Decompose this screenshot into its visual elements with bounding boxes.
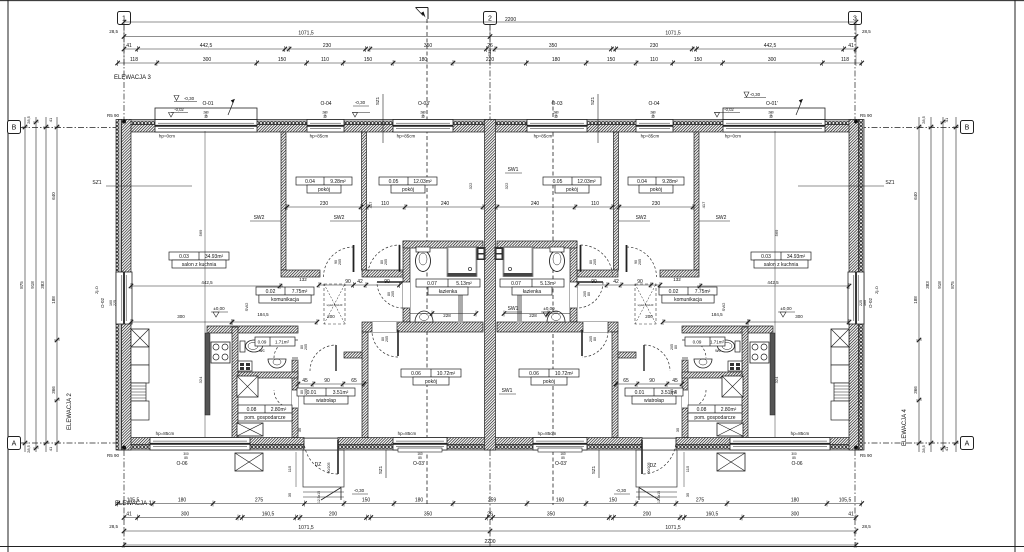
svg-text:0.09: 0.09 bbox=[258, 340, 267, 345]
svg-text:R5 90: R5 90 bbox=[860, 113, 873, 118]
svg-text:150: 150 bbox=[609, 497, 618, 503]
entry door DZ left leaf+arc bbox=[337, 440, 339, 474]
door wc left arc bbox=[292, 340, 298, 358]
svg-text:5.13m²: 5.13m² bbox=[456, 281, 472, 287]
bathroom washbasin right bbox=[547, 311, 565, 322]
svg-text:wyłaz 60x120: wyłaz 60x120 bbox=[327, 303, 343, 307]
svg-text:35: 35 bbox=[675, 427, 680, 432]
svg-text:SZ1: SZ1 bbox=[375, 96, 380, 105]
svg-text:41: 41 bbox=[126, 511, 132, 517]
svg-text:34.93m²: 34.93m² bbox=[205, 254, 224, 260]
svg-text:240: 240 bbox=[531, 201, 540, 207]
room label komunikacja left bbox=[256, 287, 314, 295]
room label wc right bbox=[685, 337, 725, 346]
svg-text:184,5: 184,5 bbox=[711, 312, 723, 317]
svg-text:160: 160 bbox=[556, 497, 565, 503]
svg-text:pom. gospodarcze: pom. gospodarcze bbox=[694, 415, 735, 421]
svg-text:366: 366 bbox=[913, 386, 918, 394]
grid bubble B left bbox=[8, 121, 21, 134]
svg-text:34.93m²: 34.93m² bbox=[787, 254, 806, 260]
svg-text:SZ1: SZ1 bbox=[378, 465, 383, 474]
grid line A dash-dot axis bbox=[21, 442, 961, 444]
svg-text:160,5: 160,5 bbox=[706, 511, 719, 517]
slope marker at O-01 bbox=[228, 99, 235, 115]
svg-text:wyłaz 60x120: wyłaz 60x120 bbox=[638, 303, 654, 307]
bathroom east wall right bbox=[570, 241, 577, 322]
svg-text:80: 80 bbox=[587, 292, 591, 296]
svg-text:350: 350 bbox=[424, 511, 433, 517]
svg-text:918: 918 bbox=[937, 281, 942, 289]
svg-text:28,5: 28,5 bbox=[862, 29, 871, 34]
pokojC east wall right bbox=[612, 332, 618, 438]
svg-text:1071,5: 1071,5 bbox=[298, 525, 314, 531]
svg-text:417: 417 bbox=[368, 201, 373, 208]
svg-text:0.07: 0.07 bbox=[511, 281, 521, 287]
grid bubble 1 bbox=[118, 12, 131, 25]
svg-text:25: 25 bbox=[204, 115, 208, 119]
svg-text:5.13m²: 5.13m² bbox=[540, 281, 556, 287]
room label pomgosp left bbox=[238, 405, 292, 413]
svg-text:1071,5: 1071,5 bbox=[665, 30, 681, 36]
room label pokojB left bbox=[379, 177, 437, 185]
svg-text:wc: wc bbox=[715, 348, 721, 353]
svg-text:DZ: DZ bbox=[315, 462, 322, 468]
svg-text:pokój: pokój bbox=[318, 187, 330, 193]
section line A-A dashed right bbox=[552, 100, 554, 505]
room label pokojA left bbox=[296, 177, 352, 185]
svg-text:80: 80 bbox=[674, 345, 678, 349]
svg-text:105,5: 105,5 bbox=[839, 497, 852, 503]
wc-pomgosp east wall bbox=[292, 360, 298, 438]
svg-text:300: 300 bbox=[203, 57, 212, 63]
svg-text:pokój: pokój bbox=[425, 379, 437, 385]
window O-02 right wall bbox=[848, 272, 864, 324]
wc small appliance left bbox=[238, 361, 252, 371]
window O-04 top right bbox=[636, 120, 673, 133]
svg-text:322: 322 bbox=[468, 182, 473, 189]
svg-text:132: 132 bbox=[673, 277, 681, 282]
wc-pomgosp west wall right bbox=[682, 360, 688, 438]
svg-text:225: 225 bbox=[859, 300, 863, 306]
svg-text:pom. gospodarcze: pom. gospodarcze bbox=[244, 415, 285, 421]
svg-text:3.51m²: 3.51m² bbox=[333, 390, 349, 396]
svg-text:-0,02: -0,02 bbox=[724, 107, 734, 112]
svg-text:85: 85 bbox=[184, 456, 188, 460]
svg-text:0.03: 0.03 bbox=[761, 254, 771, 260]
door pokojB left leaf+arc bbox=[399, 245, 401, 272]
svg-text:205: 205 bbox=[304, 344, 308, 350]
window O-04 top left bbox=[307, 120, 344, 133]
svg-text:25: 25 bbox=[651, 115, 655, 119]
svg-text:188: 188 bbox=[913, 296, 918, 304]
svg-text:SW2: SW2 bbox=[721, 302, 726, 311]
wc toilet left bbox=[246, 340, 263, 352]
svg-text:240: 240 bbox=[441, 201, 450, 207]
svg-text:O-06: O-06 bbox=[176, 461, 187, 467]
svg-text:65: 65 bbox=[623, 378, 629, 384]
room label komunikacja right bbox=[659, 287, 717, 295]
wall salon-pokojA vertical bbox=[281, 132, 286, 270]
svg-text:łazienka: łazienka bbox=[523, 289, 542, 295]
svg-text:25: 25 bbox=[421, 115, 425, 119]
svg-text:komunikacja: komunikacja bbox=[674, 297, 702, 303]
svg-text:118: 118 bbox=[130, 57, 138, 63]
svg-text:25: 25 bbox=[769, 115, 773, 119]
kitchen striped box left bbox=[131, 383, 146, 401]
svg-text:SW2: SW2 bbox=[254, 215, 265, 221]
svg-text:2.80m²: 2.80m² bbox=[721, 407, 737, 413]
bottom exterior wall insulation layer bbox=[118, 445, 862, 451]
bottom dim chain row 2 bbox=[124, 517, 856, 519]
svg-text:10.72m²: 10.72m² bbox=[437, 371, 456, 377]
svg-text:9.28m²: 9.28m² bbox=[662, 179, 678, 185]
svg-text:SZ1: SZ1 bbox=[591, 465, 596, 474]
svg-text:28,5: 28,5 bbox=[109, 524, 118, 529]
wall pokojA-pokojB vertical bbox=[362, 132, 367, 270]
svg-text:640: 640 bbox=[51, 192, 56, 200]
svg-text:225: 225 bbox=[113, 300, 117, 306]
svg-text:0.02: 0.02 bbox=[266, 289, 276, 295]
svg-text:110: 110 bbox=[381, 201, 389, 207]
svg-text:R5 90: R5 90 bbox=[107, 113, 120, 118]
svg-text:12.5x15: 12.5x15 bbox=[657, 491, 661, 503]
bathroom south / pokojC north wall bbox=[362, 322, 483, 332]
svg-text:O-01: O-01 bbox=[202, 101, 213, 107]
svg-text:85: 85 bbox=[418, 456, 422, 460]
kitchen counter boxes left bbox=[131, 347, 149, 365]
room label wiatrolap right bbox=[625, 388, 683, 396]
svg-text:115: 115 bbox=[287, 465, 292, 472]
svg-text:300: 300 bbox=[791, 511, 800, 517]
svg-text:1.71m²: 1.71m² bbox=[710, 340, 725, 345]
svg-text:0.06: 0.06 bbox=[529, 371, 539, 377]
svg-text:12.03m²: 12.03m² bbox=[413, 179, 432, 185]
vent shaft block center left bbox=[477, 247, 486, 260]
kitchen fridge xbox right bbox=[831, 329, 849, 347]
grid bubble A left bbox=[8, 437, 21, 450]
svg-text:hp=85cm: hp=85cm bbox=[791, 431, 810, 436]
grid line 1 vertical dash-dot bbox=[123, 25, 125, 136]
svg-text:10.72m²: 10.72m² bbox=[555, 371, 574, 377]
svg-text:300: 300 bbox=[181, 511, 190, 517]
svg-text:90: 90 bbox=[384, 279, 390, 285]
svg-text:918: 918 bbox=[30, 281, 35, 289]
svg-text:1071,5: 1071,5 bbox=[665, 525, 681, 531]
svg-text:łazienka: łazienka bbox=[439, 289, 458, 295]
corner dots bbox=[122, 120, 126, 124]
svg-text:28,5: 28,5 bbox=[862, 524, 871, 529]
svg-text:41: 41 bbox=[126, 43, 132, 49]
wc washbasin left bbox=[268, 359, 286, 368]
svg-text:7.75m²: 7.75m² bbox=[695, 289, 711, 295]
svg-text:O-01': O-01' bbox=[766, 101, 778, 107]
svg-text:417: 417 bbox=[701, 201, 706, 208]
washer xbox pomgosp left bbox=[237, 376, 258, 397]
svg-text:12.5x15: 12.5x15 bbox=[317, 491, 321, 503]
svg-text:90: 90 bbox=[324, 378, 330, 384]
wc washbasin right bbox=[694, 359, 712, 368]
svg-text:90: 90 bbox=[637, 279, 643, 285]
room label wiatrolap left bbox=[297, 388, 355, 396]
svg-text:275: 275 bbox=[696, 497, 705, 503]
svg-text:28,5: 28,5 bbox=[26, 115, 31, 124]
kitchen counter boxes right bbox=[831, 347, 849, 365]
svg-text:2200: 2200 bbox=[484, 539, 495, 545]
svg-text:O-03': O-03' bbox=[418, 101, 430, 107]
entry porch left bbox=[303, 450, 344, 487]
svg-text:205: 205 bbox=[391, 291, 395, 297]
svg-text:O-02: O-02 bbox=[868, 298, 873, 309]
svg-text:SW2: SW2 bbox=[334, 215, 345, 221]
kitchen stove left bbox=[211, 342, 230, 363]
svg-text:35: 35 bbox=[287, 492, 292, 497]
svg-text:hp=85cm: hp=85cm bbox=[538, 431, 557, 436]
wall pokojA-pokojB vertical right bbox=[614, 132, 619, 270]
corridor north wall right a bbox=[660, 270, 699, 277]
svg-text:259: 259 bbox=[488, 497, 497, 503]
left exterior wall insulation bbox=[116, 120, 122, 451]
svg-text:pokój: pokój bbox=[402, 187, 414, 193]
bottom exterior wall structure bbox=[118, 438, 862, 445]
svg-text:180: 180 bbox=[419, 57, 428, 63]
kitchen counter back strip bbox=[205, 333, 210, 415]
svg-text:569: 569 bbox=[774, 229, 779, 236]
svg-text:-0,02: -0,02 bbox=[174, 107, 184, 112]
appliance xbox2 pomgosp right bbox=[717, 423, 743, 436]
svg-text:ELEWACJA 1: ELEWACJA 1 bbox=[115, 501, 152, 507]
svg-text:230: 230 bbox=[323, 43, 332, 49]
svg-text:hp=0cm: hp=0cm bbox=[159, 134, 175, 139]
window O-03' top left bbox=[393, 120, 453, 133]
svg-text:ELEWACJA 2: ELEWACJA 2 bbox=[67, 393, 73, 430]
bathroom washbasin left bbox=[415, 311, 433, 322]
right exterior wall structure bbox=[849, 120, 859, 451]
svg-text:35: 35 bbox=[297, 427, 302, 432]
svg-text:hp=85cm: hp=85cm bbox=[534, 134, 553, 139]
room label pokojB right bbox=[543, 177, 601, 185]
room label lazienka right bbox=[500, 279, 564, 287]
wiatrolap north wall stub right bbox=[618, 352, 636, 358]
attic hatch dashed box left corridor bbox=[324, 284, 345, 324]
svg-text:0.01: 0.01 bbox=[635, 390, 645, 396]
svg-text:SW1: SW1 bbox=[508, 306, 519, 312]
bottom dim chain row 1 bbox=[118, 503, 862, 505]
room label pokojA right bbox=[628, 177, 684, 185]
svg-text:205: 205 bbox=[304, 389, 308, 395]
svg-text:180: 180 bbox=[552, 57, 561, 63]
svg-text:324: 324 bbox=[198, 376, 203, 383]
wc-pomgosp divider bbox=[238, 372, 298, 378]
svg-text:118: 118 bbox=[841, 57, 849, 63]
corridor north wall segment a bbox=[281, 270, 320, 277]
corridor north wall right b bbox=[577, 270, 618, 277]
svg-text:28,5: 28,5 bbox=[109, 29, 118, 34]
window O-06 bottom right bbox=[730, 438, 830, 451]
svg-text:132: 132 bbox=[299, 277, 307, 282]
bathroom north wall bbox=[403, 241, 483, 248]
bathroom toilet right bbox=[550, 251, 565, 272]
svg-text:ELEWACJA 3: ELEWACJA 3 bbox=[114, 75, 151, 81]
washer xbox pomgosp right bbox=[722, 376, 743, 397]
window bottom pokoj right bbox=[533, 438, 587, 451]
door pokojC right leaf+arc bbox=[581, 330, 583, 356]
wc east wall right bbox=[742, 327, 748, 438]
svg-text:205: 205 bbox=[593, 259, 597, 265]
window O-01' top right bbox=[723, 108, 825, 120]
entry porch right bbox=[636, 450, 677, 487]
svg-text:90/205: 90/205 bbox=[647, 463, 651, 474]
svg-text:SW2: SW2 bbox=[716, 215, 727, 221]
svg-text:±0,00: ±0,00 bbox=[543, 306, 555, 311]
svg-text:42: 42 bbox=[613, 279, 619, 285]
svg-text:90: 90 bbox=[345, 279, 351, 285]
grid bubble B right bbox=[961, 121, 974, 134]
door pomgosp right arc bbox=[682, 390, 688, 408]
svg-text:O-06: O-06 bbox=[791, 461, 802, 467]
svg-text:A: A bbox=[965, 440, 970, 447]
svg-text:salon z kuchnia: salon z kuchnia bbox=[764, 262, 799, 268]
pokoj width dims left bbox=[287, 206, 361, 208]
svg-text:300: 300 bbox=[768, 57, 777, 63]
svg-text:230: 230 bbox=[652, 201, 661, 207]
kitchen stove right bbox=[750, 342, 769, 363]
svg-text:O-03: O-03 bbox=[551, 101, 562, 107]
svg-text:200: 200 bbox=[645, 314, 653, 319]
svg-text:wiatrołap: wiatrołap bbox=[316, 398, 336, 404]
window bottom pokoj left bbox=[393, 438, 447, 451]
door pokojA right leaf+arc bbox=[626, 245, 628, 272]
kitchen fridge xbox left bbox=[131, 329, 149, 347]
central dividing wall bbox=[485, 120, 496, 451]
svg-text:A: A bbox=[12, 440, 17, 447]
svg-text:110: 110 bbox=[650, 57, 658, 63]
svg-text:150: 150 bbox=[278, 57, 287, 63]
top exterior wall insulation layer bbox=[118, 120, 862, 125]
svg-text:28,5: 28,5 bbox=[921, 444, 926, 453]
top exterior wall structure bbox=[118, 125, 862, 133]
svg-text:41: 41 bbox=[944, 446, 949, 451]
door wc right arc bbox=[682, 340, 688, 358]
wall salon-pokojA vertical right bbox=[694, 132, 699, 270]
svg-text:35: 35 bbox=[685, 492, 690, 497]
svg-text:230: 230 bbox=[650, 43, 659, 49]
svg-text:41: 41 bbox=[48, 117, 53, 122]
kitchen-corridor south wall bbox=[207, 326, 298, 333]
bathroom west wall bbox=[403, 241, 410, 322]
svg-text:7.75m²: 7.75m² bbox=[292, 289, 308, 295]
svg-text:±0,00: ±0,00 bbox=[213, 306, 225, 311]
wiatrolap dims right bbox=[616, 383, 682, 385]
svg-text:0.08: 0.08 bbox=[247, 407, 257, 413]
grid bubble A right bbox=[961, 437, 974, 450]
svg-text:275: 275 bbox=[255, 497, 264, 503]
svg-text:SZ1: SZ1 bbox=[885, 180, 894, 186]
room label pokojC right bbox=[519, 369, 579, 377]
svg-text:205: 205 bbox=[670, 344, 674, 350]
svg-text:O-04: O-04 bbox=[320, 101, 331, 107]
svg-text:205: 205 bbox=[338, 259, 342, 265]
grid line B dash-dot axis bbox=[21, 127, 961, 129]
svg-text:0.03: 0.03 bbox=[179, 254, 189, 260]
svg-text:300: 300 bbox=[795, 314, 803, 319]
svg-text:28,5: 28,5 bbox=[26, 444, 31, 453]
top dim chain row A total 2200 bbox=[124, 21, 856, 23]
svg-text:pokój: pokój bbox=[650, 187, 662, 193]
svg-text:45: 45 bbox=[302, 378, 308, 384]
bottom dim chain row 3 bbox=[124, 530, 856, 532]
door bathroom right leaf+arc bbox=[570, 282, 577, 308]
corridor north wall segment b bbox=[362, 270, 403, 277]
door bathroom left leaf+arc bbox=[403, 282, 410, 308]
svg-text:12.03m²: 12.03m² bbox=[577, 179, 596, 185]
svg-text:pokój: pokój bbox=[543, 379, 555, 385]
svg-text:85: 85 bbox=[561, 456, 565, 460]
room label salon right bbox=[751, 252, 811, 260]
svg-text:180: 180 bbox=[791, 497, 800, 503]
vent shaft block center right bbox=[495, 247, 504, 260]
svg-text:322: 322 bbox=[504, 182, 509, 189]
svg-text:Zj-O: Zj-O bbox=[94, 286, 99, 294]
door wiatrolap right leaf+arc bbox=[643, 345, 645, 371]
svg-text:180: 180 bbox=[415, 497, 424, 503]
svg-text:350: 350 bbox=[547, 511, 556, 517]
svg-text:O-02: O-02 bbox=[100, 298, 105, 309]
svg-text:25: 25 bbox=[554, 115, 558, 119]
room label salon left bbox=[169, 252, 229, 260]
svg-text:-0,30: -0,30 bbox=[354, 488, 365, 493]
window O-02 left wall bbox=[116, 272, 132, 324]
window O-06 bottom left bbox=[150, 438, 250, 451]
svg-text:41: 41 bbox=[944, 117, 949, 122]
bathroom south / pokojC north wall right bbox=[497, 322, 618, 332]
pokoj width dims right bbox=[619, 206, 693, 208]
svg-text:180: 180 bbox=[178, 497, 187, 503]
svg-text:-0,30: -0,30 bbox=[184, 96, 195, 101]
door pomgosp left arc bbox=[292, 390, 298, 408]
top dim chain row C bbox=[124, 48, 856, 50]
svg-text:150: 150 bbox=[607, 57, 616, 63]
svg-text:2.80m²: 2.80m² bbox=[271, 407, 287, 413]
svg-text:350: 350 bbox=[549, 43, 558, 49]
svg-text:-0,30: -0,30 bbox=[750, 92, 761, 97]
svg-text:110: 110 bbox=[591, 201, 599, 207]
svg-text:hp=85cm: hp=85cm bbox=[641, 134, 660, 139]
svg-text:hp=85cm: hp=85cm bbox=[310, 134, 329, 139]
svg-text:300: 300 bbox=[177, 314, 185, 319]
svg-text:184,5: 184,5 bbox=[257, 312, 269, 317]
svg-text:350: 350 bbox=[424, 43, 433, 49]
svg-text:-0,30: -0,30 bbox=[616, 488, 627, 493]
top dim chain row B 1071,5 x2 bbox=[124, 36, 856, 38]
svg-text:200: 200 bbox=[643, 511, 652, 517]
svg-text:85: 85 bbox=[792, 456, 796, 460]
bathroom plumbing strip right bbox=[517, 290, 522, 323]
left dim vertical chains bbox=[24, 117, 26, 452]
section marker A top bbox=[416, 7, 429, 9]
wc west wall bbox=[232, 327, 238, 438]
room label lazienka left bbox=[416, 279, 480, 287]
section line A-A dashed left bbox=[426, 19, 428, 505]
svg-text:R5 90: R5 90 bbox=[860, 453, 873, 458]
left exterior wall structure bbox=[122, 120, 132, 451]
attic hatch dashed box right corridor bbox=[635, 284, 656, 324]
svg-text:45: 45 bbox=[672, 378, 678, 384]
appliance xbox2 pomgosp left bbox=[237, 423, 263, 436]
svg-text:110: 110 bbox=[321, 57, 329, 63]
svg-text:SW1: SW1 bbox=[508, 167, 519, 173]
svg-text:41: 41 bbox=[48, 446, 53, 451]
bathroom shower left bbox=[448, 247, 477, 276]
